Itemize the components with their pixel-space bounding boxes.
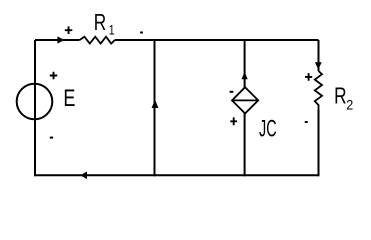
minus mark E <box>50 137 53 139</box>
wire right branch lower <box>318 109 320 176</box>
wire JC branch <box>244 40 246 176</box>
minus mark JC diamond <box>230 91 234 93</box>
svg-text:R: R <box>334 84 346 109</box>
label R2 <box>334 84 353 112</box>
plus mark R1 left <box>65 26 73 34</box>
voltage source E circle <box>17 84 53 120</box>
wire middle branch <box>154 40 156 176</box>
svg-text:2: 2 <box>346 97 353 113</box>
svg-text:1: 1 <box>109 22 115 38</box>
wire top right segment <box>115 39 319 41</box>
dependent source JC diamond <box>232 87 258 113</box>
wire top left segment <box>35 39 80 41</box>
minus mark R1 right <box>140 32 143 34</box>
label R1 <box>94 11 115 38</box>
wire right branch upper <box>318 40 320 71</box>
wire bottom <box>35 174 319 176</box>
svg-text:JC: JC <box>259 116 277 143</box>
current arrow top (right) <box>57 36 64 43</box>
svg-text:R: R <box>94 11 106 36</box>
current arrow JC branch (up) <box>242 72 248 80</box>
resistor R1 <box>80 37 115 44</box>
plus mark R2 <box>305 73 312 81</box>
wire left branch <box>34 40 36 176</box>
resistor R2 <box>315 71 322 109</box>
plus mark E <box>50 72 57 79</box>
plus mark JC diamond <box>230 117 237 125</box>
current arrow middle branch (up) <box>152 100 159 109</box>
svg-text:E: E <box>63 86 75 112</box>
current arrow R2 branch (down) <box>315 62 322 69</box>
minus mark R2 <box>305 121 308 123</box>
current arrow bottom (left) <box>80 172 87 180</box>
